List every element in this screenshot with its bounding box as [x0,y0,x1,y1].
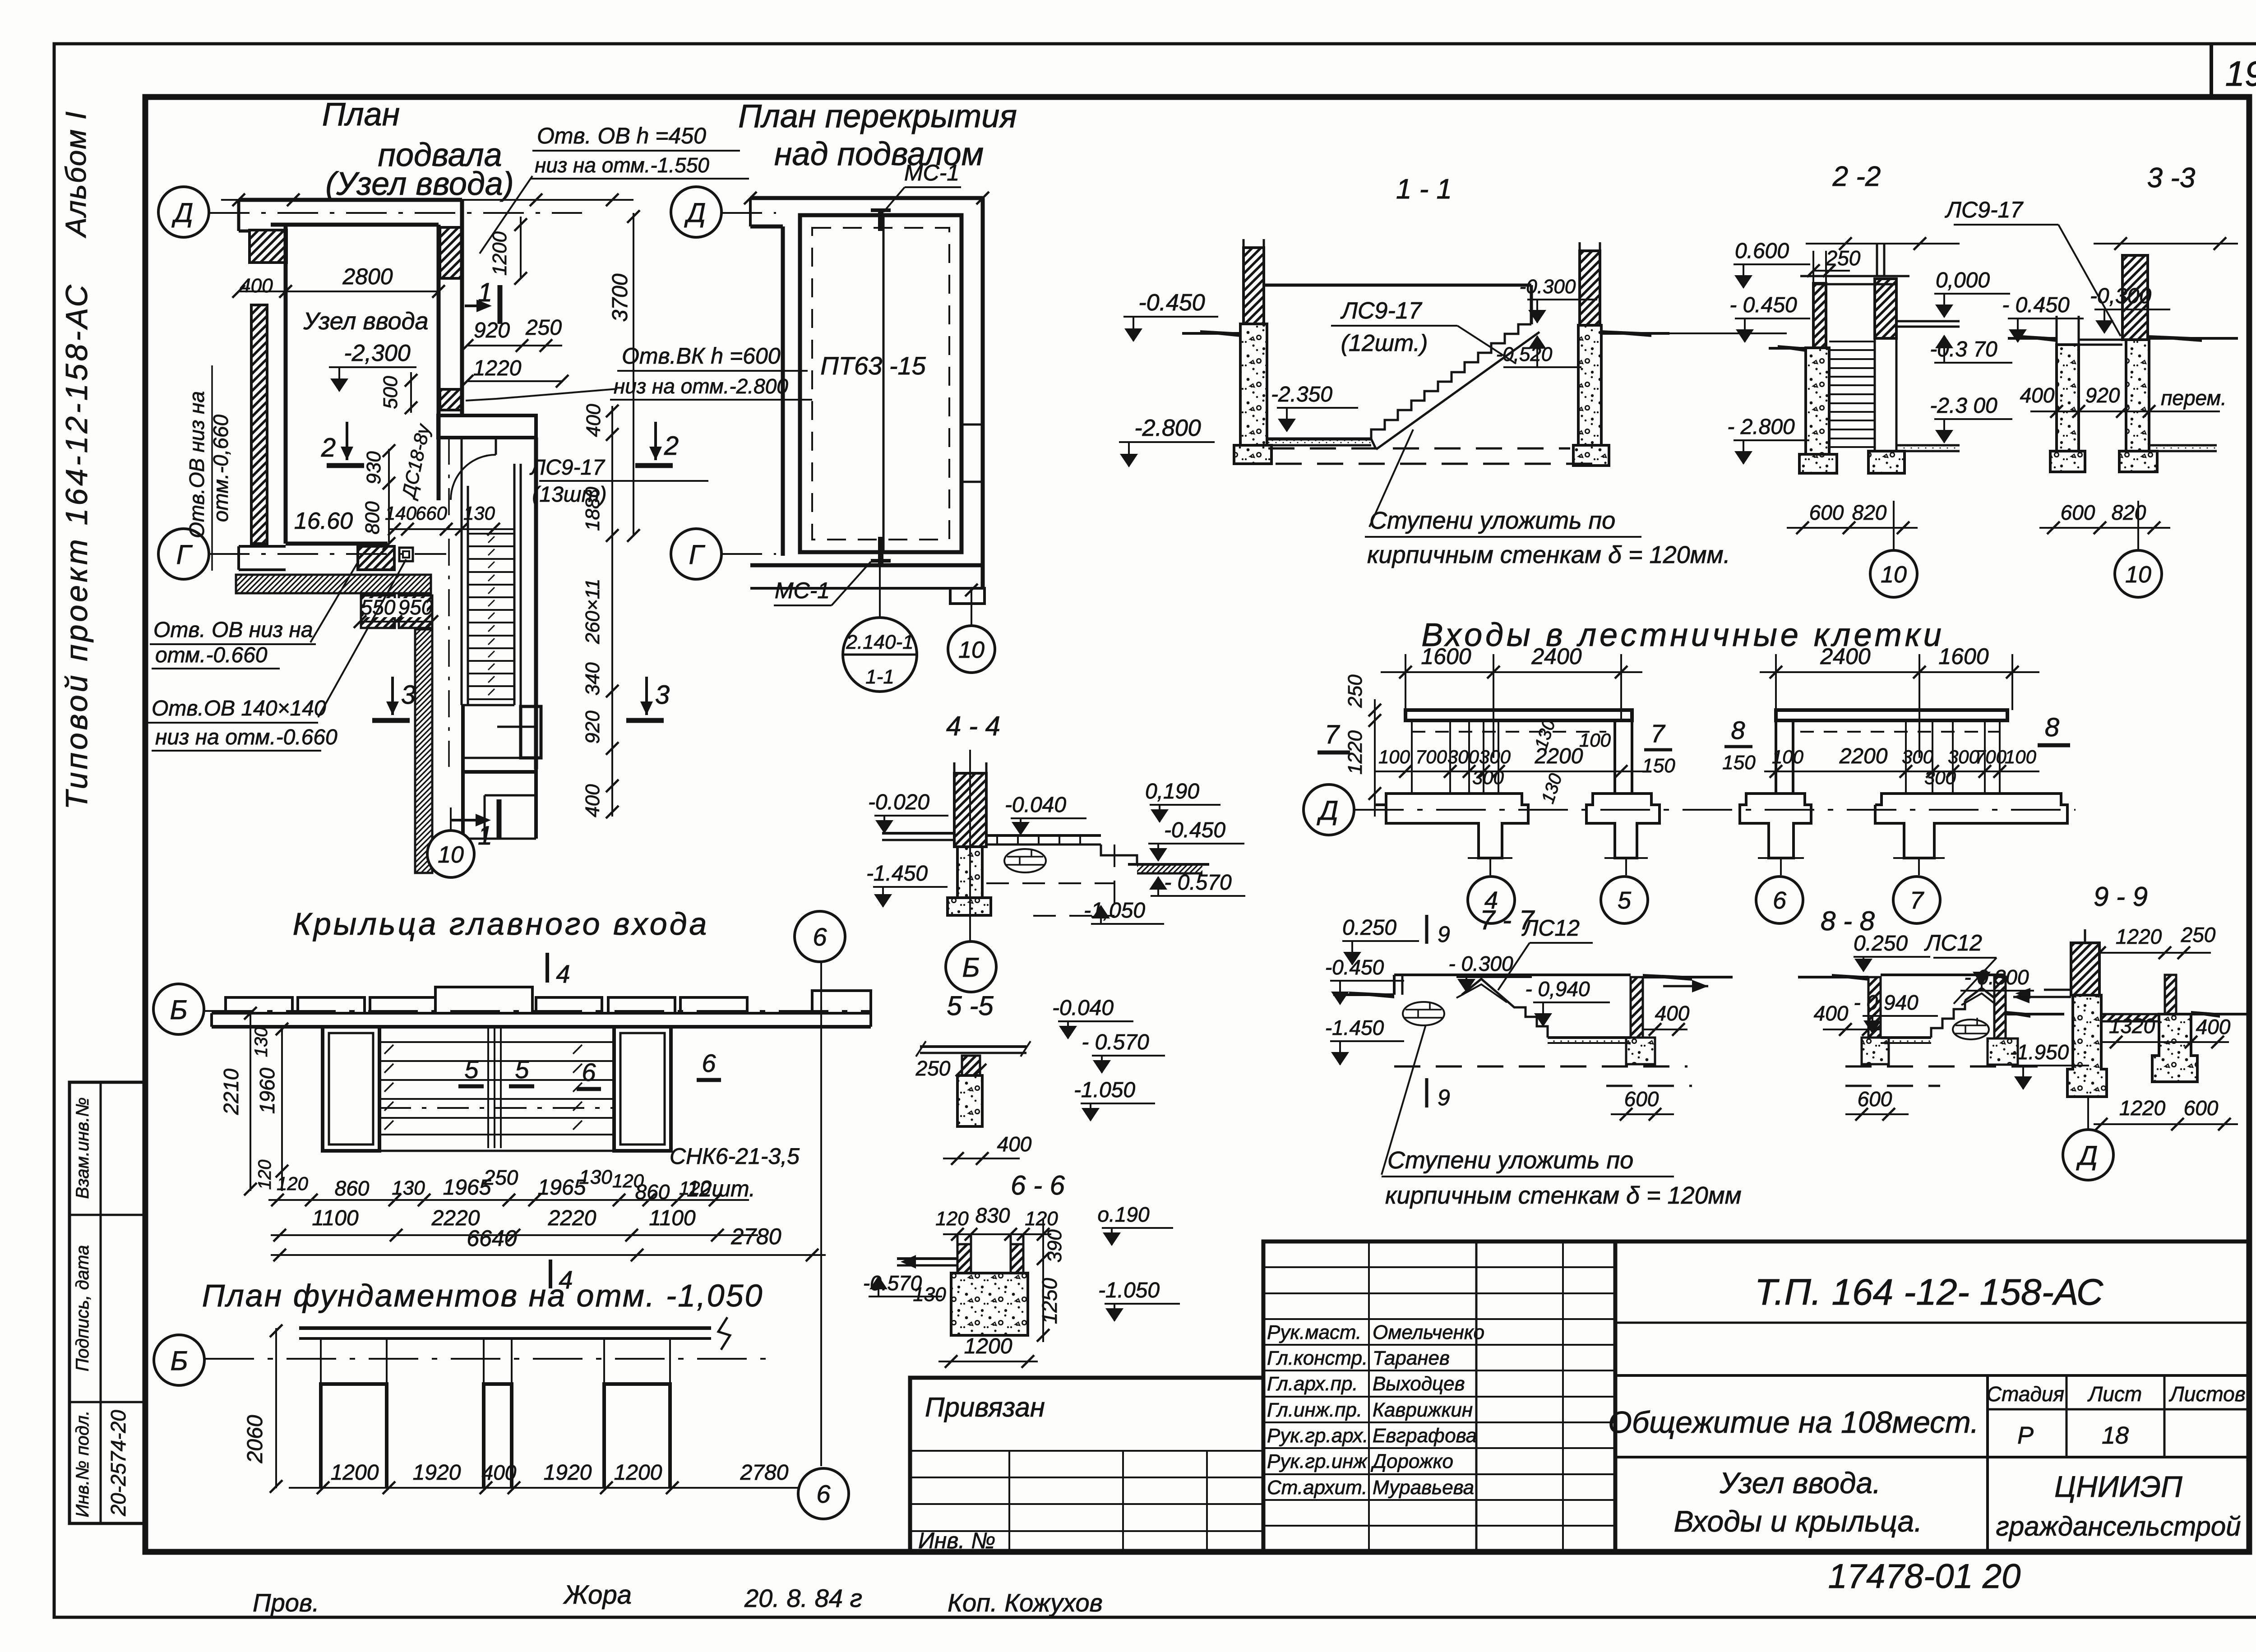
svg-text:Д: Д [1317,795,1338,826]
svg-text:0,190: 0,190 [1145,780,1199,803]
small device square [399,548,413,561]
7-7 ground right exit [1643,976,1733,978]
svg-text:6: 6 [813,923,827,951]
svg-text:1220: 1220 [1344,730,1366,775]
svg-text:3700: 3700 [608,273,632,322]
entry left mid dim line [1375,771,1651,772]
svg-text:Г: Г [689,540,706,570]
svg-text:6640: 6640 [467,1226,517,1251]
svg-text:Муравьева: Муравьева [1373,1477,1474,1499]
ground hatch strip vertical [415,629,432,873]
svg-text:830: 830 [975,1204,1010,1227]
entry right platform wide [1875,794,2067,858]
svg-text:2: 2 [664,431,679,461]
2-2 stair rungs [1829,341,1875,342]
porch right big rect [614,1027,671,1151]
svg-text:950: 950 [398,595,433,619]
svg-text:отм.-0.660: отм.-0.660 [155,643,268,667]
svg-text:9: 9 [1438,922,1450,947]
bubble 7 [1918,858,1920,875]
right wall inner face [437,225,441,500]
svg-text:2400: 2400 [1820,644,1870,669]
svg-text:700: 700 [1975,746,2007,767]
MS-1 bracket top [878,208,883,231]
3-3 ground left [2008,337,2057,340]
svg-text:-0.300: -0.300 [1520,276,1576,298]
porch bottom dim row 2 [271,1234,758,1236]
svg-text:860: 860 [335,1177,370,1200]
3-3 ground right [2149,337,2238,340]
7-7 steps down right [1503,998,1548,1038]
1-1 stair steps [1371,324,1531,439]
8-8 ground right [2006,1013,2064,1015]
porch section mark 4 top [546,953,549,983]
svg-text:ЛС9-17: ЛС9-17 [529,456,606,480]
2-2 bubble 10 [1893,501,1895,550]
8-8 right wall hatched [1994,977,2006,1038]
svg-text:17478-01 20: 17478-01 20 [1828,1557,2021,1596]
svg-text:3: 3 [655,680,670,710]
svg-text:Каврижкин: Каврижкин [1373,1399,1473,1421]
svg-text:6 - 6: 6 - 6 [1011,1170,1065,1200]
svg-text:120: 120 [1025,1208,1058,1230]
svg-text:100: 100 [2005,746,2037,767]
4-4 floor slab left [882,832,954,835]
svg-text:Общежитие на 108мест.: Общежитие на 108мест. [1608,1405,1979,1440]
5-5 hatched post [962,1056,980,1075]
svg-text:ЛС12: ЛС12 [1924,930,1982,955]
porch centre raised block [435,987,532,1013]
svg-text:o.190: o.190 [1097,1203,1150,1226]
svg-text:-0.040: -0.040 [1005,793,1066,817]
svg-text:1320: 1320 [2109,1014,2155,1038]
svg-text:-2.800: -2.800 [1134,415,1201,441]
svg-text:10: 10 [1881,562,1907,588]
svg-text:130: 130 [392,1177,425,1199]
1-1 ceiling line [1264,284,1531,287]
foundation strip [299,1326,711,1330]
svg-text:860: 860 [635,1180,670,1204]
porch centre joint lines [487,1027,489,1148]
svg-text:600: 600 [1858,1087,1892,1111]
porch bottom dim row 1 [268,1199,749,1201]
axis D circle [158,187,209,237]
svg-text:400: 400 [997,1132,1032,1156]
lower stair walls [461,705,465,839]
svg-text:20-2574-20: 20-2574-20 [106,1410,130,1517]
svg-text:Г: Г [176,540,193,570]
svg-text:1-1: 1-1 [865,666,894,688]
svg-text:Выходцев: Выходцев [1373,1373,1465,1395]
svg-text:2800: 2800 [342,264,393,289]
svg-text:низ на отм.-2.800: низ на отм.-2.800 [614,374,788,398]
5-5 slab [920,1045,1026,1048]
svg-text:Ступени уложить по: Ступени уложить по [1369,507,1615,534]
svg-text:5 -5: 5 -5 [947,991,994,1021]
2-2 left pier hatched [1812,251,1814,283]
svg-text:1960: 1960 [255,1067,279,1114]
sheet number box 19 [2210,44,2213,97]
6-6 left wall hatched [957,1244,971,1273]
svg-text:400: 400 [2020,383,2055,407]
svg-text:ЛС9-17: ЛС9-17 [1945,197,2024,222]
9-9 left pier concrete [2067,995,2107,1097]
stair walk line [448,438,450,767]
porch bottom dim row 3 [271,1254,826,1256]
stair right stringer [513,464,516,705]
8-8 ground left [1798,976,1868,978]
svg-text:0.250: 0.250 [1342,916,1396,940]
platform stem base ticks [1468,857,1512,859]
svg-text:-0.450: -0.450 [1325,955,1384,979]
hatched blocks 550/950 [361,595,395,628]
svg-text:Р: Р [2017,1422,2034,1449]
svg-text:0.250: 0.250 [1854,932,1908,955]
right wall outer face [460,200,464,415]
9-9 left wall hatched [2071,943,2099,995]
svg-text:(12шт.): (12шт.) [1341,330,1428,356]
svg-text:140: 140 [385,503,417,524]
9-9 right post hatched [2165,975,2176,1014]
7-7 brick symbol [1403,1002,1444,1025]
svg-text:Отв. ОВ h =450: Отв. ОВ h =450 [537,123,706,148]
door arc [451,455,496,500]
svg-text:400: 400 [1814,1001,1849,1025]
svg-text:Д: Д [2076,1140,2098,1171]
entry right canopy post left [1775,720,1777,794]
3-3 slab between piers [2079,339,2122,341]
svg-text:820: 820 [1852,501,1887,524]
porch bubble 6 top [795,911,845,962]
svg-text:18: 18 [2102,1422,2129,1449]
svg-text:930: 930 [363,451,385,485]
svg-text:-1.450: -1.450 [1325,1016,1384,1039]
svg-text:низ на отм.-0.660: низ на отм.-0.660 [155,725,337,749]
svg-text:300: 300 [1472,767,1504,788]
svg-text:Рук.маст.: Рук.маст. [1267,1321,1361,1343]
svg-text:- 0.300: - 0.300 [1964,965,2029,989]
4-4 axis line vertical [969,750,971,941]
svg-text:2 -2: 2 -2 [1832,161,1881,192]
svg-text:1920: 1920 [544,1461,592,1485]
slab centre joint [883,215,885,552]
svg-text:6: 6 [816,1480,831,1508]
svg-text:Отв. ОВ низ на: Отв. ОВ низ на [153,618,313,642]
svg-text:1100: 1100 [312,1206,359,1230]
svg-text:ЦНИИЭП: ЦНИИЭП [2054,1470,2182,1503]
svg-text:400: 400 [1655,1001,1690,1025]
1-1 ground line right [1601,332,1669,335]
bubble 5 [1625,858,1627,875]
4-4 brick symbol [1004,849,1046,872]
svg-text:250: 250 [1344,674,1366,708]
svg-text:6: 6 [582,1058,596,1086]
svg-text:-1.450: -1.450 [866,862,928,886]
svg-text:План: План [322,97,400,133]
stair left stringer [461,439,463,705]
svg-text:2210: 2210 [219,1068,243,1115]
svg-text:1920: 1920 [413,1461,461,1485]
svg-text:Ступени уложить по: Ступени уложить по [1387,1147,1633,1174]
svg-text:Б: Б [170,1346,188,1376]
svg-text:- 0.570: - 0.570 [1082,1030,1149,1054]
svg-text:7: 7 [1650,719,1665,748]
svg-text:2400: 2400 [1531,644,1581,669]
2-2 landing lines [1800,275,1909,277]
axis G line [209,553,446,555]
4-4 wall hatched [954,773,986,847]
svg-text:- 0.300: - 0.300 [1448,952,1513,975]
axis G circle [158,529,209,579]
9-9 left stub slab [2044,989,2071,991]
svg-text:9: 9 [1438,1085,1450,1110]
6-6 concrete block [951,1273,1028,1335]
svg-text:100: 100 [1378,746,1410,767]
svg-text:Узел ввода.: Узел ввода. [1719,1466,1881,1500]
svg-text:План фундаментов на отм. -1,0: План фундаментов на отм. -1,050 [202,1278,764,1313]
1-1 dashed lines [1268,448,1570,450]
foundation bottom dims [289,1487,821,1489]
2-2 right pier hatched [1875,279,1896,338]
svg-text:-0.040: -0.040 [1052,996,1114,1020]
svg-text:- 0,940: - 0,940 [1525,977,1590,1001]
1-1 right concrete pier [1578,325,1601,445]
entry right platform left [1740,794,1811,858]
svg-text:5: 5 [515,1055,529,1084]
svg-text:120: 120 [255,1160,275,1190]
svg-text:400: 400 [582,784,604,817]
svg-text:4 - 4: 4 - 4 [946,711,1000,741]
svg-text:100: 100 [1579,729,1611,751]
svg-text:3 -3: 3 -3 [2147,162,2196,194]
svg-text:ЛС9-17: ЛС9-17 [1340,298,1422,324]
entry right mid dim line [1764,771,2039,772]
svg-text:9 - 9: 9 - 9 [2094,881,2148,912]
svg-text:1 - 1: 1 - 1 [1396,174,1452,205]
porch left big rect [323,1027,379,1151]
svg-text:10: 10 [2125,562,2151,588]
svg-text:ЛС12: ЛС12 [1521,915,1580,941]
top wall outer line [239,198,462,202]
title block: main part [1615,1241,2249,1552]
svg-text:Т.П. 164 -12- 158-АС: Т.П. 164 -12- 158-АС [1755,1272,2103,1313]
svg-text:перем.: перем. [2161,386,2227,410]
5-5 concrete pier [957,1075,982,1126]
title block: privyazan annex [910,1378,1263,1552]
svg-text:1600: 1600 [1938,644,1988,669]
7-7 exit arrow [1663,985,1708,988]
svg-text:- 0.450: - 0.450 [2002,293,2070,317]
svg-text:130: 130 [251,1027,271,1057]
svg-text:8: 8 [2045,713,2059,742]
svg-text:Б: Б [962,952,980,983]
6-6 right wall hatched [1011,1244,1023,1273]
svg-text:Пров.: Пров. [253,1588,319,1617]
svg-text:(13шт): (13шт) [532,483,606,507]
svg-text:Рук.гр.инж: Рук.гр.инж [1267,1450,1368,1472]
svg-text:260×11: 260×11 [582,579,604,645]
svg-text:- 2.800: - 2.800 [1727,415,1795,439]
svg-text:Дорожко: Дорожко [1370,1450,1453,1472]
svg-text:400: 400 [482,1461,517,1484]
right dimension chain [611,406,613,817]
svg-text:Отв.ВК h =600: Отв.ВК h =600 [622,343,781,369]
8-8 dashed bottom [1845,1066,2039,1068]
title block: names table [1263,1241,1615,1552]
svg-text:Стадия: Стадия [1987,1382,2064,1406]
left margin table [69,1082,146,1523]
svg-text:100: 100 [1772,746,1804,767]
svg-text:2200: 2200 [1839,744,1888,768]
1-1 left concrete pier [1240,324,1267,445]
svg-text:1220: 1220 [473,356,522,380]
svg-text:Гл.арх.пр.: Гл.арх.пр. [1267,1373,1358,1395]
1-1 left wall hatched [1244,248,1264,324]
svg-text:2780: 2780 [740,1461,789,1485]
svg-text:Типовой проект 164-12-158-АС: Типовой проект 164-12-158-АС [60,282,94,809]
svg-text:300: 300 [1902,746,1934,767]
svg-text:Крыльца главного входа: Крыльца главного входа [293,906,709,941]
svg-text:1200: 1200 [964,1334,1012,1358]
svg-text:10: 10 [438,842,464,868]
svg-text:Б: Б [170,995,187,1025]
svg-text:300: 300 [1924,767,1956,788]
9-9 ledge slab [2101,1013,2159,1015]
svg-text:2780: 2780 [730,1224,781,1249]
entry left canopy slab [1405,710,1632,720]
3-3 bubble 10 [2137,501,2139,550]
svg-text:500: 500 [379,376,402,409]
svg-text:кирпичным стенкам δ = 120мм.: кирпичным стенкам δ = 120мм. [1367,541,1730,568]
bubble 10 plan B [948,626,995,673]
slab plan bottom band [750,563,983,568]
foundation break mark [718,1317,730,1350]
axis D entries [1304,784,1354,835]
8-8 peak [1965,988,1994,1001]
8-8 exit arrow [2013,996,2057,998]
3-3 left pier [2056,316,2058,345]
svg-text:5: 5 [464,1055,479,1084]
svg-text:120: 120 [935,1208,969,1230]
svg-text:1: 1 [478,821,492,850]
top dimension line [221,199,633,201]
bubble 4 [1489,858,1491,875]
svg-text:-0.450: -0.450 [1138,290,1205,316]
9-9 axis D bubble [2087,1097,2089,1130]
svg-text:600: 600 [1624,1087,1659,1111]
right wall hatched block (OtvVK) [440,389,462,410]
entry left canopy post right [1613,720,1616,794]
entry right canopy slab [1776,710,2007,720]
svg-text:Ст.архит.: Ст.архит. [1267,1477,1368,1499]
entry left thin posts [1411,720,1413,794]
svg-text:16.60: 16.60 [294,508,353,534]
svg-text:Гл.инж.пр.: Гл.инж.пр. [1267,1399,1362,1421]
8-8 pit top slab [1881,974,2006,976]
2-2 bottom slab right [1896,444,1960,447]
porch wall band [212,1025,871,1029]
room bottom wall [286,542,388,546]
left wall inner face [284,225,288,544]
section mark 3 right [645,677,648,715]
porch section line 6 vertical [820,962,822,1466]
porch steps [379,1041,614,1043]
svg-text:-2.3 00: -2.3 00 [1930,394,1997,418]
svg-text:250: 250 [915,1057,951,1080]
svg-text:2060: 2060 [243,1415,267,1463]
svg-text:- 0.940: - 0.940 [1854,991,1919,1014]
svg-text:Жора: Жора [563,1580,632,1610]
svg-text:340: 340 [582,662,604,696]
MS-1 bracket bottom [878,537,883,563]
svg-text:600: 600 [2061,501,2095,524]
4-4 right ledge bricks [986,834,1101,837]
svg-text:Д: Д [171,198,193,228]
svg-text:Лист: Лист [2087,1382,2142,1406]
7-7 ground left [1333,993,1394,996]
left wall hatched strip [251,305,267,544]
top wall inner line [271,223,439,227]
svg-text:660: 660 [416,503,448,524]
2-2 ground left [1769,347,1806,350]
detail bubble 2.140-1 [843,618,917,692]
porch raised blocks [226,997,292,1013]
ground hatch strip horizontal [236,575,431,593]
svg-text:Омельченко: Омельченко [1373,1321,1484,1343]
3-3 right concrete pier [2126,340,2149,451]
8-8 floor [1881,1036,1931,1039]
svg-text:Коп. Кожухов: Коп. Кожухов [948,1588,1103,1617]
4-4 axis B bubble [946,941,996,992]
svg-text:10: 10 [958,637,985,663]
svg-text:700: 700 [1415,746,1447,767]
svg-text:920: 920 [474,318,510,342]
2-2 right pier lines [1874,338,1876,451]
4-4 dashed box [986,882,1114,884]
svg-text:2.140-1: 2.140-1 [846,631,913,653]
svg-text:300: 300 [1447,746,1479,767]
svg-text:Привязан: Привязан [925,1392,1045,1422]
svg-text:Рук.гр.арх.: Рук.гр.арх. [1267,1425,1368,1447]
2-2 floor slab right [1896,320,1960,323]
svg-text:1600: 1600 [1421,644,1471,669]
bubble 6 [1780,858,1782,875]
porch section mark 4 bottom [549,1260,552,1288]
3-3 top boundary [2094,243,2238,245]
entry right thin posts [1905,720,1907,794]
svg-text:1250: 1250 [1038,1278,1061,1324]
svg-text:Отв.ОВ 140×140: Отв.ОВ 140×140 [152,697,326,720]
svg-text:1220: 1220 [2119,1096,2166,1120]
7-7 right footing [1626,1038,1655,1064]
svg-text:600: 600 [2184,1096,2219,1120]
porch step hatch ticks [384,1045,393,1054]
7-7 peak [1462,979,1503,998]
svg-text:20. 8. 84 г: 20. 8. 84 г [744,1584,862,1612]
bottom-left wall band [239,545,286,548]
svg-text:Евграфова: Евграфова [1373,1425,1477,1447]
1-1 stringer [1376,332,1539,449]
slab plan right boundary [981,198,985,588]
svg-text:МС-1: МС-1 [904,160,959,185]
svg-text:граждансельстрой: граждансельстрой [1996,1511,2241,1541]
svg-text:3: 3 [401,680,416,710]
9-9 right pier concrete [2152,1014,2197,1082]
svg-text:0.600: 0.600 [1735,239,1789,263]
svg-text:1220: 1220 [2116,925,2162,948]
svg-text:Гл.констр.: Гл.констр. [1267,1347,1368,1369]
7-7 floor [1548,1036,1631,1039]
